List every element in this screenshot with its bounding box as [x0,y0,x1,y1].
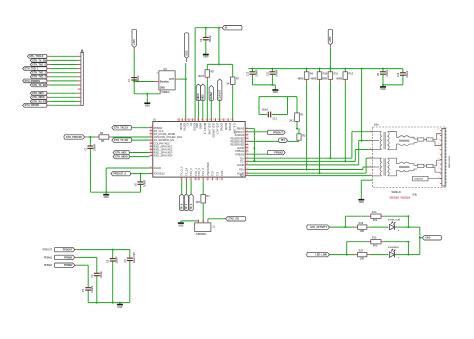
wire DGND [106,167,149,169]
wire R2 to jumper [202,203,204,223]
net flag PFBIN2 [54,263,75,267]
pin U1.MDC [193,118,198,128]
wire ETH_MDIO [47,96,81,98]
wire R9 top [306,69,308,72]
wire C9 to gnd [205,40,207,52]
wire C5 bottom [87,291,89,303]
wire left [258,97,260,115]
pin stub OSC flag [186,58,188,62]
ground pfb [117,303,123,309]
svg-text:GND: GND [145,105,150,107]
pin K3.3 [369,149,372,151]
svg-text:ETH_PWRDN: ETH_PWRDN [25,80,40,83]
wire R8 bottom to IC [206,77,208,121]
resistor R5 ferrite [99,132,109,143]
wire PFBIN1 [78,256,97,258]
svg-text:RD-: RD- [240,175,245,178]
wire up to resistor [346,242,348,255]
wire to C9 [205,28,207,37]
junction [346,254,348,256]
svg-text:ETH_TXCLK: ETH_TXCLK [29,55,43,58]
svg-text:GND: GND [160,88,165,90]
resistor R9 49R9 [297,72,313,81]
wire RESET to IC [210,101,212,122]
net flag PFBOUT1 [111,171,130,175]
svg-text:TXD_2: TXD_2 [198,168,201,176]
svg-text:1: 1 [438,182,439,184]
wire R11 to TX line [329,82,331,158]
ground [203,52,209,59]
pin stubs R15 [368,241,384,243]
wire PFBIN2 [78,264,89,266]
pin U1.RXD_0/PHYAD1 [150,145,173,148]
wire CLKOUT to IC [219,101,221,122]
wire RDC to jack [366,157,369,159]
svg-text:TP_1: TP_1 [185,203,188,209]
wire LED_ACTIVITY [330,226,355,228]
svg-text:2K2: 2K2 [373,245,378,248]
svg-text:11: 11 [213,119,215,121]
svg-text:45: 45 [150,148,152,150]
svg-text:6: 6 [438,158,439,160]
wire R1 bottom [296,121,298,128]
svg-text:6: 6 [197,179,198,181]
resistor R7 [226,77,239,85]
wire TXD_2 down [190,180,192,194]
wire to supply flag net [408,226,419,228]
svg-text:4: 4 [189,179,190,181]
svg-text:RD+: RD+ [239,169,245,172]
resistor R11 49R9 [321,72,338,81]
wire R11 top [329,69,331,72]
junction gnd rail [105,191,107,193]
resistor R3 [297,134,306,140]
svg-text:27: 27 [246,150,248,152]
wire R3 top [298,128,300,134]
svg-text:ETH_CRSDV: ETH_CRSDV [25,104,40,107]
pin U1.RX_ER/MDIX_EN [150,139,175,142]
svg-text:3: 3 [370,148,371,150]
wire ETH_CRSDV [47,104,81,106]
svg-text:PFBOUT: PFBOUT [273,131,283,134]
pin U1.TXD_1 [194,168,198,182]
svg-text:2: 2 [181,119,182,121]
wire TD- to jack [355,149,369,151]
svg-text:SHLD@1 SHLD@2: SHLD@1 SHLD@2 [390,198,412,200]
transformer T2 (bottom pair) [373,158,441,176]
svg-text:C11: C11 [266,71,269,76]
resistor R8 4K87 [198,70,214,78]
svg-text:1: 1 [370,130,371,132]
net flag OSC [184,33,188,58]
svg-text:13: 13 [221,119,223,121]
pin U1.PFBIN2 [235,153,248,156]
wire TD+ to jack [352,131,369,133]
svg-text:GND: GND [117,307,122,309]
junction X1 [185,78,187,80]
net flag ETH_CRSDV [23,103,47,107]
svg-text:+3V3: +3V3 [425,237,431,240]
wire MDC [129,152,149,154]
net flag TXD_1 bottom [184,194,188,211]
net flag TEST_EN [226,217,246,221]
svg-text:TP_2: TP_2 [190,203,193,209]
svg-text:ETH_TXD_2: ETH_TXD_2 [32,72,46,75]
svg-text:MDC: MDC [195,123,198,129]
pin U1.CLK_OUT [230,118,236,134]
svg-text:TDI: TDI [216,172,219,176]
junction flag [419,237,421,239]
svg-text:-: - [384,256,385,259]
ground decoupling [272,88,278,95]
pin U1.AVDD33 [235,134,249,137]
wire caps gnd rail right [383,84,403,86]
svg-text:TP_0: TP_0 [181,203,184,209]
net flag CLKOUT [218,79,222,101]
svg-text:9: 9 [438,144,439,146]
wire ETH_TX_ER [47,84,81,86]
junction C1 [89,136,91,138]
pin stubs 15R [355,254,371,256]
net flag ETH_MDIO [30,95,47,99]
pin U1.TXD_2 [197,168,201,182]
pin Q1.OUT [175,78,179,80]
svg-text:21: 21 [246,131,248,133]
svg-text:2K2: 2K2 [373,219,378,222]
pin stub (n.c.) [78,88,81,90]
net flag ETH_MDC [30,91,47,95]
pin U1.IOVDD33 [150,172,166,175]
svg-text:R17: R17 [359,250,364,253]
svg-text:LED_LINK: LED_LINK [315,254,327,257]
svg-text:ETH_TXCLK: ETH_TXCLK [114,127,128,130]
svg-text:5: 5 [438,163,439,165]
pin U1.RXD_2/PHYAD3 [150,151,173,154]
svg-text:8: 8 [206,179,207,181]
svg-text:ETH_MDC: ETH_MDC [32,92,44,95]
wire LED right [395,226,409,228]
ground jumper [178,221,184,227]
svg-text:PFBIN2: PFBIN2 [235,153,244,156]
resistor R14 2K2 [371,211,381,222]
wire TXD_0 down [181,180,183,194]
pin U1.AGND [237,147,248,150]
svg-text:K3a: K3a [374,124,379,127]
junction R8 rail [218,63,220,65]
wire RDC up [365,158,367,173]
wire R7 bottom to IC [232,84,234,121]
wire ETH_MDC [47,92,81,94]
svg-text:100nF: 100nF [137,75,140,83]
connector J1 JUMPER3 [195,223,216,236]
wire R5 to IC [112,136,150,138]
svg-text:1K: 1K [226,82,229,85]
pin U1.X2 [187,118,192,126]
svg-text:K3b: K3b [413,194,418,197]
wire green to vertical [408,254,419,256]
wire rbias top [259,96,297,98]
junction Q1 EN [133,81,135,83]
wire RD+ to jack [363,166,369,168]
svg-text:PFBOUT_A: PFBOUT_A [113,173,126,176]
wire TD+ [248,157,352,159]
svg-text:2K2: 2K2 [289,119,294,122]
wire LED_LINK [330,254,355,256]
wire C4 bottom [96,276,98,302]
pin U1.TX_CLK [180,166,184,181]
svg-text:+3V3: +3V3 [133,39,136,45]
pin U1.TMS [219,170,224,181]
pin U1.LED_LINK [206,118,211,135]
svg-text:ETH_TXD_1: ETH_TXD_1 [25,68,39,71]
svg-text:47: 47 [150,154,152,156]
wire center tap supply [361,69,363,141]
pin U1.AGND [237,164,248,167]
junction C9 top [205,27,207,29]
svg-text:5: 5 [194,179,195,181]
net flag +3V3 LED [422,236,441,240]
svg-text:100uF: 100uF [144,179,147,187]
wire PFBOUT right [248,131,267,133]
wire RDC [248,172,366,174]
chassis box [413,176,442,181]
svg-text:2: 2 [180,179,181,181]
wire TX_CLK [132,127,150,129]
svg-text:25: 25 [246,143,248,145]
svg-text:46: 46 [150,151,152,153]
pin U1.TXD_0 [189,168,193,182]
wire Q1 OUT [179,78,186,80]
svg-text:100nF: 100nF [209,35,212,43]
net flag RESET [209,86,213,101]
svg-text:ETH_TXD_3: ETH_TXD_3 [32,76,46,79]
svg-text:R12: R12 [349,72,354,75]
svg-text:GND: GND [178,225,183,227]
svg-text:10uF/16V: 10uF/16V [133,252,136,263]
connector JP1 header bar [81,50,83,106]
supply flag +3V3 [132,29,136,47]
svg-text:8: 8 [438,148,439,150]
pin U1.DGND [150,167,162,170]
pin U1.RESERVED [230,143,248,146]
svg-text:Standby: Standby [160,80,170,83]
resistor R12 49R9 [336,72,354,81]
wire R14 right [384,215,408,217]
pin stubs R5 [96,136,112,138]
svg-text:FB: FB [101,140,105,143]
wire R1 top [296,97,298,113]
wire C6 bottom [140,185,142,192]
resistor R15 2K2 [371,237,381,248]
svg-text:10: 10 [215,179,217,181]
oscillator Q1 50MHz [157,67,176,94]
ground shield [358,198,364,204]
svg-text:49R9: 49R9 [297,77,304,80]
pin U1.X1 [184,118,189,126]
svg-text:PFBIN2: PFBIN2 [64,264,73,267]
wire PFBIN [248,140,278,142]
wire C13 left [259,114,267,116]
wire RD- [248,175,369,177]
pin U1.PFBIN1 [235,150,248,153]
pin U1.TDI [215,172,220,182]
net flag TXD_0 bottom [180,194,184,211]
wire TX_EN [132,139,150,141]
svg-text:ETH_RX_ER: ETH_RX_ER [32,100,46,103]
net flag MDIO left [113,154,129,158]
junction center tap [361,140,363,142]
svg-text:49R9: 49R9 [336,77,343,80]
pin stub TEST_EN [223,218,225,220]
svg-text:40: 40 [150,133,152,135]
wire LED right [395,254,409,256]
wire ETH_TXD_1 [47,68,81,70]
svg-text:49R9: 49R9 [310,77,317,80]
svg-text:TXD_0: TXD_0 [190,168,193,176]
svg-text:100nF: 100nF [275,69,278,77]
wire R12 top [344,69,346,72]
svg-text:PF1: PF1 [281,139,286,142]
svg-text:R16: R16 [359,222,364,225]
wire C12 top [252,69,254,72]
svg-text:6: 6 [370,174,371,176]
pin U1.RBIAS [237,127,249,130]
svg-text:PFBIN2: PFBIN2 [274,151,283,154]
pin U1.RX_CLK [150,130,164,133]
pin U1.IOVDD [191,118,196,131]
svg-text:PFBIN2: PFBIN2 [44,265,53,267]
connector RJ45 bar [442,128,445,186]
wire TD- [248,160,355,162]
svg-text:21: 21 [150,172,152,174]
wire ETH_RX_ER [47,100,81,102]
svg-text:TX_EN: TX_EN [185,168,188,176]
svg-text:43: 43 [150,142,152,144]
svg-text:IOGND: IOGND [220,123,223,131]
pin U1.RD+ [239,168,248,171]
resistor R10 49R9 [310,72,328,81]
wire to R3 [288,140,299,142]
wire to LED [370,254,388,256]
svg-text:DGND: DGND [154,167,162,170]
capacitor C8 100nF [377,69,389,77]
svg-text:2: 2 [370,139,371,141]
wire to 2K2 [347,241,368,243]
svg-text:OUT: OUT [169,79,174,81]
svg-text:PFBOUT: PFBOUT [63,249,73,252]
svg-text:GND: GND [104,197,109,199]
connector K3a magjack [373,124,447,188]
svg-text:TXD_3: TXD_3 [202,168,205,176]
pin U1.IOGND [181,118,186,131]
wire to R5 [87,136,96,138]
svg-text:6: 6 [193,119,194,121]
pin U1.RESERVED [230,140,248,143]
wire J1 pin3 [207,219,209,220]
junction caps gnd [271,84,273,86]
wire R7 top [232,64,234,77]
pin stubs R14 [368,215,384,217]
net flag ETH_TXD_2 [30,71,47,75]
wire X1 vertical [185,63,187,122]
svg-text:ETH_MDIO: ETH_MDIO [115,156,127,159]
resistor 15R [358,222,367,233]
junction C6 [140,173,142,175]
svg-text:ETH_MDIO: ETH_MDIO [32,96,44,99]
wire MDC to IC [202,101,204,122]
svg-text:GND: GND [359,202,364,204]
svg-text:7: 7 [197,119,198,121]
svg-text:HR911105A: HR911105A [448,156,451,168]
svg-text:22: 22 [246,134,248,136]
wire X2 to IC [194,28,196,122]
net flag ETH_TX_ER [30,83,47,87]
pin U1.IOVDD [225,118,231,131]
svg-text:SHIELD: SHIELD [392,191,401,194]
wire C10 bottom [402,76,404,85]
svg-text:38: 38 [150,126,152,128]
svg-text:20: 20 [246,127,248,129]
wire PFBOUT1 to IC [130,173,149,175]
wire 3V3 rail [248,68,403,70]
svg-text:100nF: 100nF [386,69,389,77]
net flag PFBOUT [54,247,75,251]
capacitor C10 100nF [397,70,409,78]
svg-text:MDIO: MDIO [198,123,201,130]
pins J1 [199,220,208,223]
svg-text:IOGND: IOGND [182,123,185,131]
svg-text:LED_ACTIVITY: LED_ACTIVITY [310,226,327,229]
svg-text:100nF: 100nF [91,285,94,293]
pin U1.AGND [237,172,248,175]
capacitor C6 100uF [135,179,147,187]
wire RBIAS [248,128,254,130]
svg-text:34: 34 [246,174,248,176]
svg-text:DGND: DGND [179,123,182,131]
svg-text:RXD_3/PHYAD4: RXD_3/PHYAD4 [154,155,173,158]
wire +3V3 to rail [329,45,331,69]
svg-text:100nF: 100nF [262,110,269,112]
wire C7 bottom [133,78,135,94]
wire R15 right [384,241,408,243]
svg-text:100nF: 100nF [406,70,409,78]
svg-text:TX_CLK: TX_CLK [181,166,184,176]
wire C12 bottom [252,75,254,85]
svg-text:PFBIN1: PFBIN1 [44,257,53,259]
svg-text:1K5: 1K5 [195,201,200,204]
pin stub PFBADC [85,136,88,138]
pin U1.IOGND [217,118,223,131]
wire C13 right [272,114,288,116]
svg-text:MDC: MDC [202,94,205,100]
net flag PFBIN1 right [279,138,288,142]
pin K3.6 [369,175,372,177]
wire TDC [248,164,358,166]
wire R12 bottom [344,79,346,82]
svg-text:-: - [384,229,385,232]
wire green right vertical [407,242,409,255]
wire to LED [370,226,388,228]
pin U1.TXD_3 [201,168,205,182]
capacitor C2 10uF [124,252,136,263]
svg-text:100nF: 100nF [100,271,103,279]
svg-text:C13: C13 [273,119,278,121]
svg-text:10: 10 [209,119,211,121]
svg-text:C10: C10 [397,72,400,77]
svg-text:ETH_TX_EN: ETH_TX_EN [114,139,128,142]
wire C11 bottom [271,75,273,85]
pins RJ45 [437,129,441,184]
